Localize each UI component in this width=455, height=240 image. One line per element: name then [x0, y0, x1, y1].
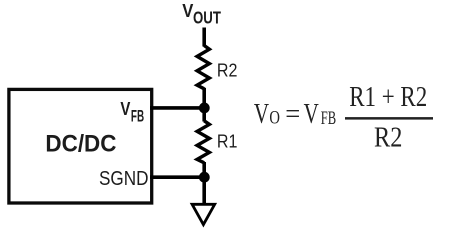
wire node to R1	[202, 106, 206, 122]
wire R1 bottom to node SGND	[202, 162, 206, 178]
equation fraction bar	[345, 117, 433, 120]
equation: VO = VFB (R1+R2)/R2	[254, 81, 433, 153]
svg-text:V: V	[120, 98, 131, 119]
svg-text:R2: R2	[374, 121, 402, 153]
svg-text:V: V	[254, 99, 269, 130]
svg-text:FB: FB	[131, 107, 144, 125]
wire VFB pin to node	[150, 106, 204, 110]
svg-text:=: =	[285, 98, 300, 129]
pin label VFB	[120, 98, 144, 125]
node VOUT label	[182, 0, 221, 28]
ground	[192, 204, 215, 224]
svg-text:SGND: SGND	[99, 166, 148, 189]
svg-text:R2: R2	[217, 59, 238, 80]
svg-text:R1 + R2: R1 + R2	[349, 81, 427, 113]
wire node to ground	[202, 177, 206, 203]
svg-text:V: V	[304, 99, 319, 130]
svg-text:O: O	[269, 107, 280, 128]
svg-text:FB: FB	[321, 109, 336, 129]
svg-text:V: V	[182, 0, 193, 21]
svg-text:DC/DC: DC/DC	[45, 130, 116, 157]
wire R2 bottom to node VFB	[202, 88, 206, 110]
node junction SGND (dot)	[199, 172, 210, 183]
resistor R2	[197, 46, 209, 89]
svg-text:OUT: OUT	[193, 9, 221, 28]
svg-text:R1: R1	[217, 130, 238, 151]
wire SGND pin to node	[150, 175, 204, 179]
wire VOUT stem	[202, 28, 206, 47]
node junction VFB (dot)	[199, 103, 210, 114]
DC/DC converter block U1	[9, 89, 152, 203]
resistor R1	[197, 121, 209, 163]
